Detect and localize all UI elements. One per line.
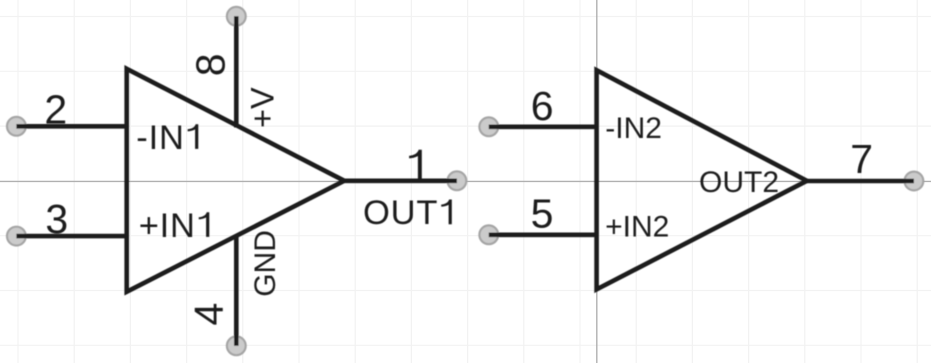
svg-text:OUT: OUT (363, 194, 438, 232)
pin 3 end (7, 227, 26, 246)
pin 5 end (479, 225, 498, 244)
wire pin 1 (OUT1) (344, 179, 457, 184)
svg-text:7: 7 (850, 136, 873, 182)
pin 6 end (479, 117, 498, 136)
svg-text:GND: GND (249, 230, 282, 297)
wire pin 7 (OUT2) (807, 179, 914, 184)
svg-text:3: 3 (45, 196, 68, 242)
pin 4 end (227, 336, 246, 355)
wire pin 5 (+IN2) (489, 233, 597, 238)
svg-text:-IN: -IN (136, 119, 184, 157)
pin 7 end (905, 172, 924, 191)
pin 2 end (7, 117, 26, 136)
svg-text:4: 4 (186, 303, 232, 326)
svg-text:8: 8 (187, 53, 233, 76)
svg-text:-IN2: -IN2 (605, 112, 662, 145)
wire pin 4 (GND) (234, 235, 239, 346)
pin 1 end (448, 171, 467, 190)
wire pin 6 (-IN2) (489, 125, 597, 130)
wire pin 3 (+IN1) (16, 234, 126, 239)
svg-text:6: 6 (531, 83, 554, 129)
svg-text:5: 5 (531, 190, 554, 236)
wire pin 8 (+V) (234, 16, 239, 127)
svg-text:+IN: +IN (139, 207, 196, 245)
pin 8 end (227, 7, 246, 26)
pin number 1 (409, 150, 422, 179)
op-amp U2 triangle body (597, 70, 807, 289)
wire pin 2 (-IN1) (16, 124, 126, 129)
op-amp U1 triangle body (127, 69, 345, 292)
svg-text:+IN2: +IN2 (605, 210, 669, 243)
svg-text:+V: +V (245, 87, 281, 128)
svg-text:2: 2 (44, 87, 67, 133)
svg-text:OUT2: OUT2 (699, 166, 779, 199)
